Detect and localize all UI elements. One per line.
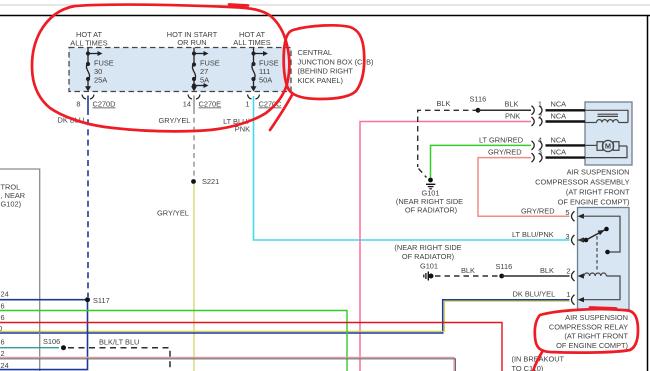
- svg-text:1: 1: [566, 290, 570, 299]
- svg-text:NCA: NCA: [551, 112, 567, 121]
- label assembly caption: [535, 168, 630, 207]
- svg-text:COMPRESSOR RELAY: COMPRESSOR RELAY: [549, 322, 628, 331]
- svg-text:8: 8: [76, 100, 80, 109]
- wire BLK solid from S116 to assembly pin 1: [478, 109, 531, 111]
- relay coil: [583, 273, 620, 300]
- svg-text:G102): G102): [1, 199, 22, 208]
- wire DK BLU dashed from pin 8 to S117: [87, 96, 89, 110]
- svg-text:DK BLU/YEL: DK BLU/YEL: [513, 289, 556, 298]
- svg-text:G101: G101: [420, 262, 438, 271]
- connector pin 8 C270D: [76, 95, 115, 109]
- label HOT AT ALL TIMES (fuse 30): [70, 30, 107, 47]
- wire GRY/YEL solid below S221: [193, 184, 195, 371]
- relay pin 3: [565, 232, 584, 245]
- svg-text:BLK: BLK: [437, 99, 451, 108]
- label LT BLU/ PNK: [223, 117, 250, 134]
- label IN BREAKOUT TO C110: [512, 355, 565, 371]
- svg-text:BLK: BLK: [540, 266, 554, 275]
- relay pin 5 internal to contact: [583, 216, 620, 252]
- label pcm box text: [1, 183, 26, 209]
- svg-text:OF ENGINE COMPT): OF ENGINE COMPT): [558, 198, 630, 207]
- svg-text:S116: S116: [496, 262, 513, 271]
- svg-text:6: 6: [1, 313, 5, 322]
- svg-text:2: 2: [1, 349, 5, 358]
- pcm box edge (left): [0, 169, 40, 371]
- annotation red loop around CJB caption: [270, 25, 364, 130]
- annotation red loop around relay caption: [533, 308, 638, 371]
- svg-text:0: 0: [0, 324, 2, 333]
- relay pin 5: [565, 208, 584, 221]
- label FUSE 30 25A: [94, 59, 114, 85]
- svg-text:BLK: BLK: [505, 100, 519, 109]
- central junction box CJB: [69, 48, 291, 92]
- svg-text:6: 6: [1, 338, 5, 347]
- svg-text:GRY/YEL: GRY/YEL: [159, 116, 191, 125]
- wire GRY/RED from assembly pin 3 down to relay pin 5: [478, 158, 570, 217]
- svg-text:GRY/RED: GRY/RED: [521, 207, 555, 216]
- relay pin 2: [566, 267, 584, 281]
- svg-text:5A: 5A: [200, 75, 209, 84]
- svg-text:PNK: PNK: [505, 112, 520, 121]
- fuse F111 50A: [251, 48, 269, 92]
- relay pin 1: [566, 290, 584, 305]
- svg-text:1: 1: [538, 100, 542, 109]
- svg-text:ALL TIMES: ALL TIMES: [233, 38, 270, 47]
- assembly motor M internal: [585, 140, 627, 157]
- svg-text:KICK PANEL): KICK PANEL): [298, 76, 343, 85]
- splice S116 (upper): [470, 95, 487, 113]
- label HOT IN START OR RUN (fuse 27): [167, 30, 218, 47]
- wire DK BLU horizontal into S117: [0, 299, 85, 301]
- svg-text:(AT RIGHT FRONT: (AT RIGHT FRONT: [566, 188, 630, 197]
- svg-text:OF RADIATOR): OF RADIATOR): [405, 206, 457, 215]
- wire BLK/LT BLU dashed from S106: [68, 348, 170, 371]
- svg-text:ALL TIMES: ALL TIMES: [70, 38, 107, 47]
- wire GRY/YEL dashed from pin 14 to S221: [193, 96, 195, 110]
- svg-text:S116: S116: [470, 95, 487, 104]
- svg-text:25A: 25A: [94, 75, 107, 84]
- svg-text:LT GRN/RED: LT GRN/RED: [479, 135, 523, 144]
- svg-text:3: 3: [565, 232, 569, 241]
- svg-text:4: 4: [538, 135, 542, 144]
- splice S221: [191, 177, 219, 186]
- air suspension compressor assembly box: [585, 102, 632, 165]
- ground G101 (upper, near right side of radiator): [396, 178, 463, 215]
- assembly connector pin 1 NCA: [532, 100, 586, 115]
- svg-text:(BEHIND RIGHT: (BEHIND RIGHT: [298, 67, 354, 76]
- assembly connector pin 3 NCA: [532, 147, 586, 162]
- svg-text:GRY/RED: GRY/RED: [488, 147, 522, 156]
- wire PNK/GRY pair lower: [0, 357, 455, 371]
- relay coil dashed actuator line: [596, 236, 598, 271]
- svg-text:C270D: C270D: [93, 100, 116, 109]
- svg-text:NCA: NCA: [551, 147, 567, 156]
- svg-text:S106: S106: [43, 337, 60, 346]
- svg-text:14: 14: [183, 100, 191, 109]
- svg-text:C270E: C270E: [199, 100, 222, 109]
- svg-text:(AT RIGHT FRONT: (AT RIGHT FRONT: [564, 332, 628, 341]
- label HOT AT ALL TIMES (fuse 111): [233, 30, 270, 47]
- wire LT GRN horizontal lower: [0, 311, 347, 371]
- connector pin 1 C270C: [245, 95, 282, 109]
- assembly connector pin 4 NCA: [532, 135, 586, 150]
- svg-text:S117: S117: [93, 296, 110, 305]
- svg-text:OR RUN: OR RUN: [177, 38, 206, 47]
- svg-text:3: 3: [538, 147, 542, 156]
- svg-text:1: 1: [245, 100, 249, 109]
- relay switch blade: [578, 227, 609, 243]
- svg-text:OF RADIATOR): OF RADIATOR): [402, 252, 454, 261]
- svg-text:2: 2: [538, 112, 542, 121]
- svg-text:BLK: BLK: [461, 266, 475, 275]
- wire PNK from corner to assembly pin 2 and down: [360, 122, 531, 371]
- wire MED GRN to S106: [0, 347, 59, 349]
- svg-text:LT BLU/PNK: LT BLU/PNK: [512, 230, 554, 239]
- label relay caption: [549, 313, 629, 350]
- label FUSE 27 5A: [200, 59, 220, 85]
- label FUSE 111 50A: [259, 59, 279, 85]
- annotation red loop around CJB: [32, 5, 289, 132]
- label CENTRAL JUNCTION BOX caption: [298, 48, 374, 85]
- svg-text:GRY/YEL: GRY/YEL: [157, 209, 189, 218]
- wire DK BLU/YEL from relay pin 1 to left edge: [0, 300, 570, 333]
- fuse F27 5A: [191, 48, 209, 92]
- assembly connector pin 2 NCA: [532, 112, 586, 127]
- svg-text:BLK/LT BLU: BLK/LT BLU: [99, 338, 139, 347]
- wire BLK dashed from S116 to G101 (upper): [418, 110, 478, 177]
- splice S106: [43, 337, 66, 350]
- svg-text:NCA: NCA: [551, 135, 567, 144]
- svg-text:(NEAR RIGHT SIDE: (NEAR RIGHT SIDE: [394, 243, 461, 252]
- ground G101 (lower): [424, 272, 434, 281]
- wire BLK solid from S116 to relay pin 2: [502, 275, 570, 277]
- wire BLK dashed from G101 to S116 (lower): [435, 275, 499, 277]
- svg-text:COMPRESSOR ASSEMBLY: COMPRESSOR ASSEMBLY: [535, 178, 629, 187]
- wire LT BLU/PNK from pin 1 down and to relay pin 3: [254, 96, 570, 240]
- svg-text:OF ENGINE COMPT): OF ENGINE COMPT): [556, 341, 628, 350]
- assembly solenoid internal: [585, 110, 628, 122]
- svg-text:CENTRAL: CENTRAL: [298, 48, 333, 57]
- svg-text:M: M: [605, 142, 611, 151]
- svg-text:TO C110): TO C110): [512, 364, 544, 371]
- svg-text:S221: S221: [202, 177, 219, 186]
- svg-text:JUNCTION BOX (CJB): JUNCTION BOX (CJB): [298, 57, 374, 66]
- wire RED horizontal lower: [0, 323, 502, 371]
- svg-text:24: 24: [1, 361, 9, 370]
- splice S117: [85, 296, 110, 305]
- wire DK BLU below S117 to bottom wire: [0, 302, 88, 370]
- fuse F30 25A: [85, 48, 103, 92]
- svg-text:24: 24: [1, 289, 9, 298]
- splice S116 (lower): [496, 262, 513, 279]
- svg-text:NCA: NCA: [551, 100, 567, 109]
- air suspension compressor relay box: [578, 208, 630, 310]
- svg-text:5: 5: [565, 208, 569, 217]
- svg-text:2: 2: [566, 267, 570, 276]
- svg-text:6: 6: [1, 302, 5, 311]
- wire LT GRN/RED from G101 to assembly pin 4: [431, 145, 532, 177]
- svg-text:AIR SUSPENSION: AIR SUSPENSION: [567, 168, 630, 177]
- second ground area labels (near right side of radiator): [394, 243, 461, 271]
- connector pin 14 C270E: [183, 95, 221, 109]
- svg-text:AIR SUSPENSION: AIR SUSPENSION: [565, 313, 628, 322]
- svg-text:50A: 50A: [259, 75, 272, 84]
